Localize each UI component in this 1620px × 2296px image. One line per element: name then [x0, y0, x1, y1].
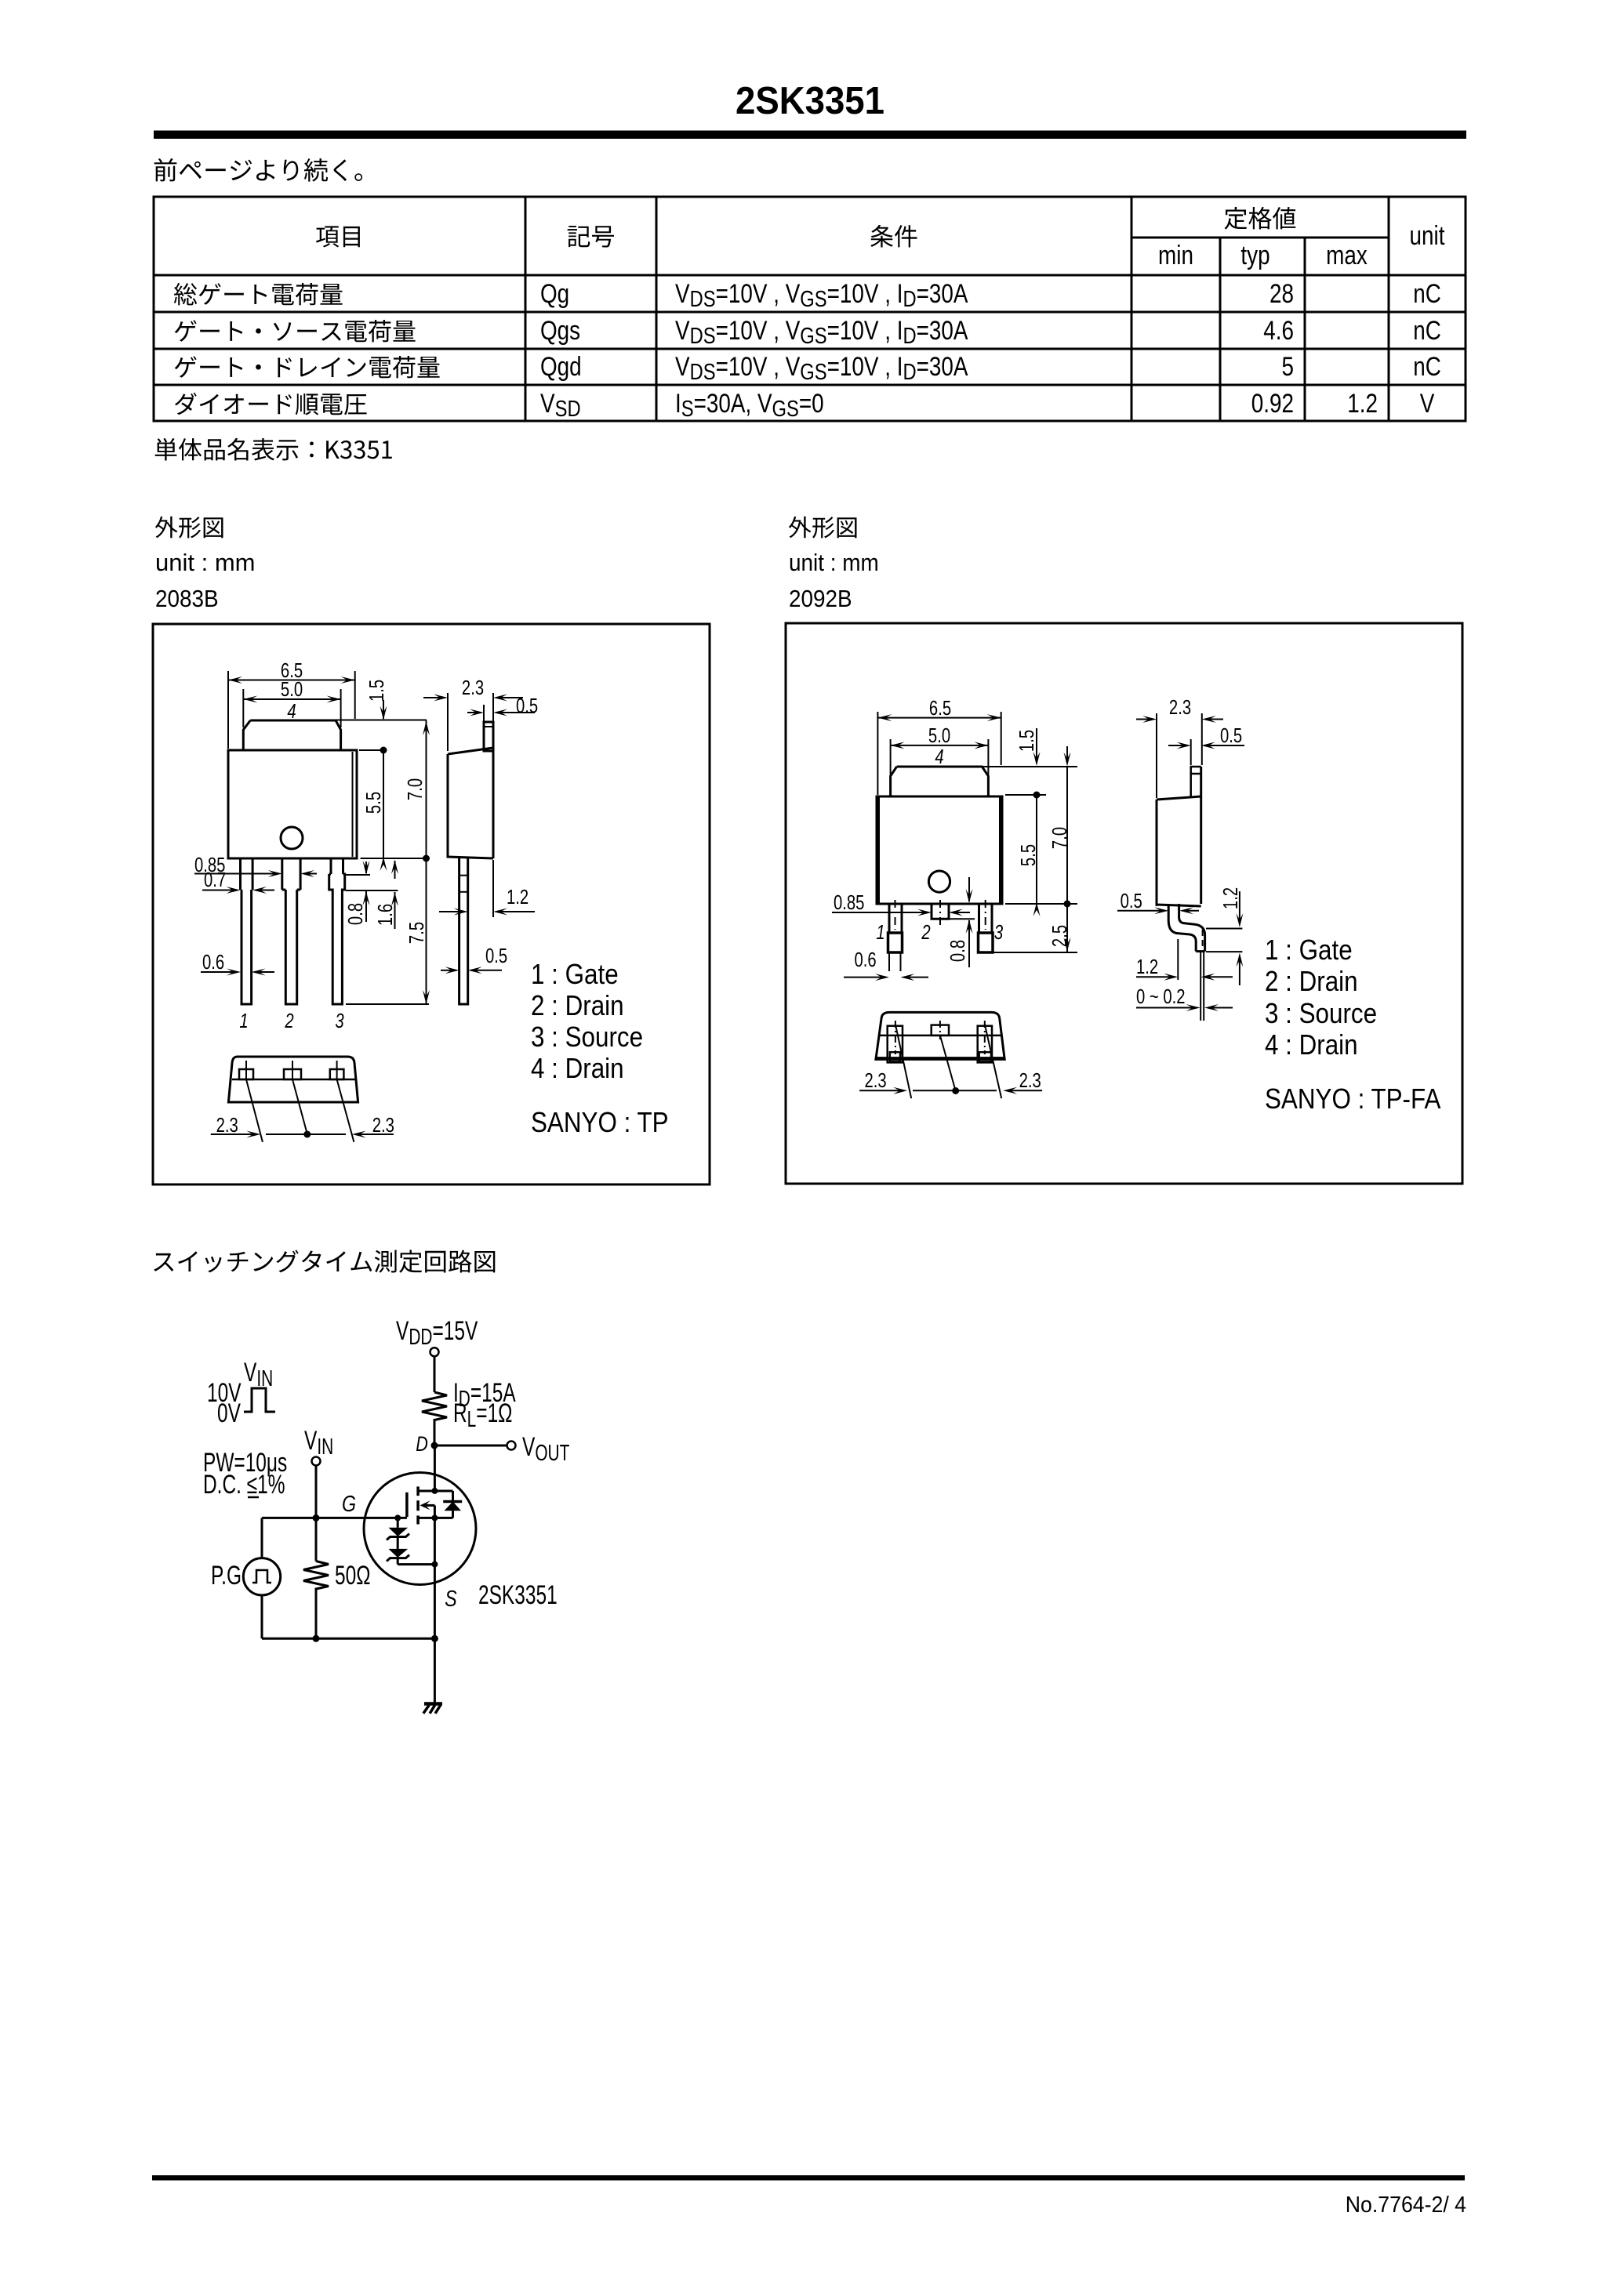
- svg-text:2SK3351: 2SK3351: [736, 80, 884, 123]
- svg-text:2.3: 2.3: [216, 1114, 238, 1137]
- svg-text:unit : mm: unit : mm: [789, 550, 879, 577]
- wire P.G to source rail: [261, 1595, 263, 1638]
- TP package side view: [448, 722, 493, 1004]
- wire gate line to P.G: [261, 1518, 263, 1558]
- wire zener to source: [397, 1558, 399, 1565]
- svg-text:1.5: 1.5: [1015, 730, 1038, 752]
- svg-text:SANYO : TP: SANYO : TP: [531, 1107, 669, 1139]
- transistor Q1 2SK3351 envelope: [364, 1473, 476, 1585]
- svg-text:IS=30A, VGS=0: IS=30A, VGS=0: [675, 388, 824, 421]
- MOSFET body/substrate arrow: [423, 1504, 434, 1507]
- terminal VOUT: [507, 1442, 516, 1450]
- wire zener-source connect: [398, 1563, 434, 1565]
- TP-FA package front view: [877, 767, 1002, 952]
- svg-text:0.8: 0.8: [344, 903, 367, 925]
- svg-text:3: 3: [994, 921, 1003, 944]
- svg-text:D: D: [416, 1433, 428, 1456]
- svg-text:0.92: 0.92: [1251, 388, 1294, 418]
- svg-text:7.0: 7.0: [1048, 827, 1071, 849]
- svg-text:2: 2: [284, 1010, 293, 1032]
- svg-text:4.6: 4.6: [1263, 315, 1294, 345]
- svg-text:4 : Drain: 4 : Drain: [531, 1053, 624, 1085]
- svg-text:7.5: 7.5: [405, 922, 428, 944]
- svg-text:0.5: 0.5: [485, 945, 507, 967]
- TP-FA package bottom view: [876, 1012, 1004, 1062]
- svg-text:nC: nC: [1413, 278, 1441, 308]
- svg-text:nC: nC: [1413, 315, 1441, 345]
- wire bottom source rail: [262, 1638, 434, 1640]
- svg-text:unit : mm: unit : mm: [155, 549, 255, 576]
- terminal VIN: [312, 1457, 321, 1466]
- jp row1 total gate charge: [174, 283, 343, 306]
- svg-text:1.2: 1.2: [1136, 956, 1158, 978]
- svg-text:RL=1Ω: RL=1Ω: [453, 1398, 512, 1432]
- svg-text:S: S: [445, 1585, 457, 1611]
- svg-text:max: max: [1326, 240, 1368, 270]
- body diode D1: [452, 1491, 454, 1518]
- svg-text:2.3: 2.3: [462, 676, 484, 699]
- svg-text:4: 4: [935, 745, 943, 768]
- svg-text:1 : Gate: 1 : Gate: [1265, 934, 1353, 967]
- svg-text:0.5: 0.5: [1121, 890, 1142, 912]
- svg-text:G: G: [342, 1490, 356, 1516]
- header rule: [154, 131, 1466, 140]
- right front view dimensions: [877, 712, 878, 795]
- jp header conditions: [870, 225, 917, 248]
- svg-text:1.5: 1.5: [365, 680, 388, 702]
- svg-text:0.5: 0.5: [516, 695, 538, 717]
- wire VDD to RL: [434, 1357, 436, 1393]
- svg-text:0.5: 0.5: [1220, 724, 1242, 747]
- ratings table grid: [154, 197, 1466, 421]
- TP-FA package side view: [1157, 767, 1205, 952]
- svg-text:unit: unit: [1410, 220, 1445, 250]
- svg-text:3: 3: [335, 1010, 343, 1032]
- jp header item: [316, 226, 360, 247]
- resistor 50ohm: [303, 1561, 329, 1590]
- double-bar of <= glyph: [248, 1496, 259, 1499]
- junction drain: [431, 1488, 438, 1494]
- svg-text:2: 2: [921, 921, 930, 944]
- MOSFET channel and gate: [418, 1490, 452, 1493]
- svg-text:7.0: 7.0: [404, 778, 427, 800]
- resistor RL: [422, 1392, 447, 1420]
- svg-text:Qg: Qg: [540, 278, 569, 308]
- junction source stub: [431, 1514, 438, 1521]
- jp circuit heading: [154, 1250, 495, 1273]
- svg-text:1.2: 1.2: [1347, 388, 1378, 418]
- footer rule: [152, 2175, 1465, 2181]
- svg-text:V: V: [1420, 388, 1435, 418]
- wire 50ohm to source rail: [315, 1588, 318, 1639]
- svg-text:3 : Source: 3 : Source: [1265, 998, 1377, 1030]
- jp outline-drawing label right: [789, 517, 857, 539]
- junction gate/VIN: [313, 1514, 320, 1522]
- svg-text:0.6: 0.6: [202, 951, 224, 974]
- svg-text:0.8: 0.8: [946, 940, 969, 962]
- wire source inside MOSFET: [434, 1518, 436, 1564]
- svg-text:0.7: 0.7: [204, 869, 226, 891]
- wire source to ground: [434, 1565, 436, 1703]
- TP package front view: [228, 720, 357, 1004]
- svg-text:2.5: 2.5: [1048, 925, 1071, 947]
- svg-text:nC: nC: [1413, 351, 1441, 381]
- svg-text:1.2: 1.2: [507, 886, 528, 909]
- svg-text:3 : Source: 3 : Source: [531, 1021, 643, 1054]
- svg-text:1.2: 1.2: [1219, 887, 1242, 909]
- svg-text:1 : Gate: 1 : Gate: [531, 959, 619, 991]
- svg-text:28: 28: [1269, 278, 1294, 308]
- svg-text:2083B: 2083B: [155, 586, 219, 613]
- svg-text:0.6: 0.6: [855, 949, 877, 971]
- svg-text:typ: typ: [1240, 240, 1269, 270]
- pulse generator P.G: [243, 1558, 280, 1595]
- svg-text:5: 5: [1281, 351, 1294, 381]
- front view dimensions: [227, 671, 229, 749]
- input pulse waveform glyph: [244, 1388, 275, 1412]
- svg-text:2.3: 2.3: [1169, 696, 1191, 719]
- wire RL to node D: [434, 1419, 436, 1445]
- svg-text:SANYO : TP-FA: SANYO : TP-FA: [1265, 1083, 1441, 1115]
- zener ZD1 cathode bar: [387, 1534, 409, 1540]
- svg-text:4 : Drain: 4 : Drain: [1265, 1029, 1358, 1061]
- svg-text:2 : Drain: 2 : Drain: [531, 990, 624, 1022]
- svg-text:5.5: 5.5: [362, 792, 385, 814]
- jp row4 diode forward voltage: [175, 393, 367, 415]
- jp continued-from-previous-page: [154, 158, 362, 182]
- svg-text:4: 4: [287, 700, 296, 723]
- gate protection zener ZD2: [397, 1537, 399, 1549]
- jp row3 gate-drain charge: [175, 356, 440, 378]
- svg-text:6.5: 6.5: [929, 697, 951, 720]
- svg-text:1: 1: [239, 1010, 248, 1032]
- jp outline-drawing label left: [155, 517, 223, 539]
- svg-text:Qgs: Qgs: [540, 315, 580, 345]
- svg-text:2 : Drain: 2 : Drain: [1265, 966, 1358, 998]
- svg-text:No.7764-2/ 4: No.7764-2/ 4: [1346, 2192, 1466, 2217]
- svg-text:0V: 0V: [217, 1398, 241, 1428]
- svg-text:2.3: 2.3: [372, 1114, 394, 1137]
- svg-text:2.3: 2.3: [865, 1069, 887, 1092]
- wire gate line: [262, 1517, 407, 1519]
- left drawing box: [153, 624, 710, 1184]
- terminal VDD: [430, 1347, 439, 1356]
- junction source: [431, 1561, 438, 1568]
- node D junction: [431, 1442, 438, 1449]
- svg-text:Qgd: Qgd: [540, 351, 582, 381]
- svg-text:P.G: P.G: [211, 1561, 242, 1591]
- svg-text:1: 1: [876, 921, 884, 944]
- svg-text:1.6: 1.6: [374, 904, 397, 926]
- svg-text:2SK3351: 2SK3351: [478, 1580, 558, 1610]
- wire node D to VOUT: [434, 1445, 507, 1447]
- svg-text:D.C. ≤1%: D.C. ≤1%: [203, 1470, 285, 1500]
- junction gate/zener: [394, 1514, 401, 1521]
- jp marking K3351: [155, 438, 392, 461]
- P.G pulse glyph: [252, 1570, 271, 1583]
- TP package bottom view: [228, 1057, 358, 1142]
- svg-text:VDD=15V: VDD=15V: [396, 1316, 478, 1350]
- svg-text:5.0: 5.0: [281, 678, 303, 701]
- svg-text:5.5: 5.5: [1017, 844, 1040, 866]
- svg-text:5.0: 5.0: [928, 724, 950, 747]
- svg-text:0 ~ 0.2: 0 ~ 0.2: [1136, 985, 1186, 1008]
- svg-text:min: min: [1158, 240, 1193, 270]
- ground: [424, 1702, 442, 1706]
- jp header symbol: [568, 226, 614, 248]
- jp row2 gate-source charge: [175, 320, 416, 342]
- svg-text:0.85: 0.85: [834, 891, 864, 914]
- svg-text:2092B: 2092B: [789, 586, 852, 613]
- svg-text:50Ω: 50Ω: [335, 1561, 371, 1591]
- wire drain into MOSFET: [434, 1445, 436, 1491]
- right drawing box: [786, 623, 1462, 1184]
- junction 50ohm/source rail: [313, 1635, 320, 1642]
- zener ZD2 cathode bar: [387, 1555, 409, 1561]
- junction source rail: [431, 1635, 438, 1642]
- wire VIN down to 50ohm resistor: [315, 1466, 318, 1561]
- jp header ratings: [1225, 207, 1296, 230]
- svg-text:2.3: 2.3: [1019, 1069, 1041, 1092]
